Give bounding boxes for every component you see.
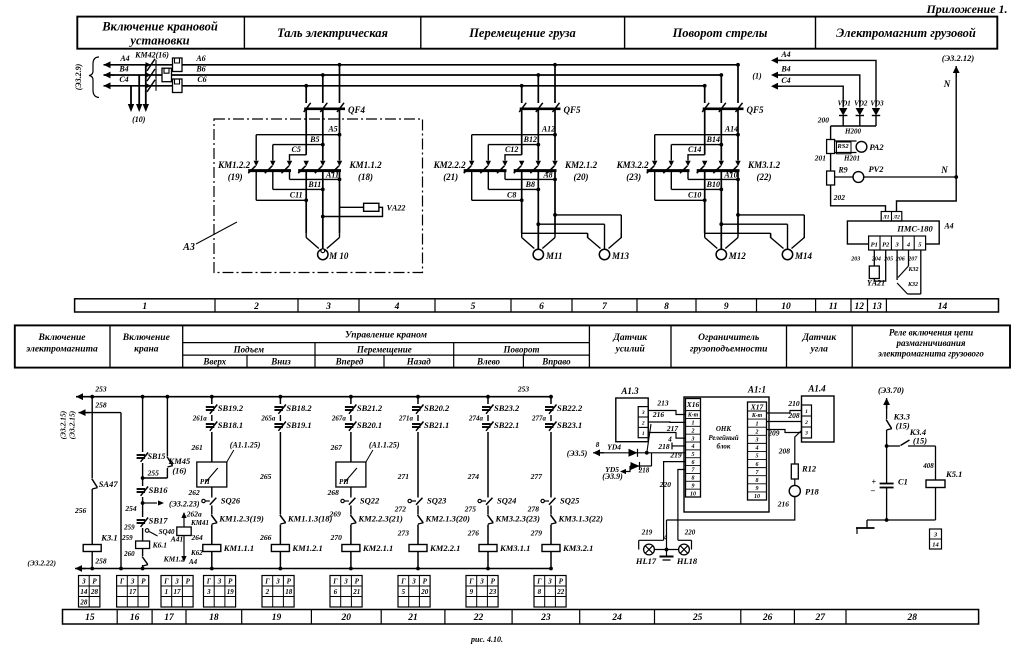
switch К3.3 <box>886 398 911 431</box>
svg-text:9: 9 <box>470 588 474 596</box>
svg-text:К-т: К-т <box>687 413 699 419</box>
svg-text:SВ15: SВ15 <box>148 452 166 461</box>
svg-text:Р: Р <box>186 577 191 585</box>
svg-text:8: 8 <box>596 441 600 449</box>
svg-text:А14: А14 <box>724 125 738 134</box>
svg-text:электромагнита грузового: электромагнита грузового <box>877 349 984 359</box>
wire 208 <box>767 411 802 422</box>
svg-text:253: 253 <box>517 385 530 394</box>
svg-text:9: 9 <box>724 302 729 312</box>
wire feeder A to М13 <box>553 213 621 238</box>
contact table 15 <box>79 576 100 608</box>
relay coil КМ3.2.1 <box>542 543 593 553</box>
label Вниз <box>270 357 291 367</box>
motor M10 shaft <box>321 249 325 253</box>
zone strip 15-28 <box>63 610 979 625</box>
svg-text:Вправо: Вправо <box>541 357 571 367</box>
svg-text:19: 19 <box>272 613 282 623</box>
svg-text:А10: А10 <box>723 171 737 180</box>
circuit breaker QF5 Поворот <box>702 103 764 115</box>
arrow B4 right <box>771 65 791 79</box>
svg-text:SВ20.2: SВ20.2 <box>424 403 450 413</box>
svg-text:НL18: НL18 <box>676 556 698 566</box>
svg-text:14: 14 <box>938 302 948 312</box>
label Подъем <box>233 345 264 355</box>
terminal Л1 Л2 <box>881 212 902 222</box>
wire rail A6 <box>104 64 739 66</box>
svg-text:2: 2 <box>265 588 270 596</box>
svg-text:КМ3.2.1: КМ3.2.1 <box>562 543 593 553</box>
svg-text:Р2: Р2 <box>882 242 890 249</box>
wire out C Поворот <box>655 172 707 202</box>
label С11 <box>290 191 303 200</box>
wire column col23 bottom <box>549 552 553 571</box>
node (Э3.2.9) <box>74 63 83 90</box>
wire out A Перемещение <box>505 172 557 181</box>
svg-text:SА47: SА47 <box>99 479 119 489</box>
svg-text:SQ24: SQ24 <box>497 496 516 506</box>
svg-text:Вверх: Вверх <box>202 357 226 367</box>
svg-text:12: 12 <box>855 302 865 312</box>
svg-text:А1.4: А1.4 <box>807 384 826 394</box>
svg-text:В11: В11 <box>307 180 321 189</box>
svg-text:КМ2.1.2: КМ2.1.2 <box>564 160 598 170</box>
svg-text:Реле включения цепи: Реле включения цепи <box>889 328 973 338</box>
svg-text:Г: Г <box>163 577 169 585</box>
contact table 17 <box>161 576 193 608</box>
svg-text:6: 6 <box>692 460 695 466</box>
svg-text:3: 3 <box>691 436 695 442</box>
svg-text:(Э3.2.23): (Э3.2.23) <box>169 500 200 509</box>
svg-text:К5.1: К5.1 <box>945 469 962 479</box>
svg-text:В14: В14 <box>706 135 720 144</box>
wire С14 vertical <box>704 110 706 155</box>
svg-text:Г: Г <box>206 577 212 585</box>
diode YD5 <box>605 453 651 474</box>
wire relay bottom <box>867 519 936 521</box>
svg-text:З: З <box>217 577 222 585</box>
wire 209 <box>767 429 802 438</box>
svg-text:М11: М11 <box>545 251 563 261</box>
wire КМ45 column <box>141 395 170 456</box>
diode YD4 <box>607 443 637 457</box>
wire 219 <box>664 451 686 541</box>
label Поворот row <box>503 345 540 355</box>
svg-text:14: 14 <box>80 588 88 596</box>
wire 255 <box>141 463 159 486</box>
meter P18 <box>789 479 819 497</box>
contact КМ2.2.3(21) <box>329 510 403 525</box>
label В14 <box>706 135 720 144</box>
svg-text:28: 28 <box>907 613 918 623</box>
svg-text:SВ19.1: SВ19.1 <box>286 420 311 430</box>
svg-text:(20): (20) <box>574 172 589 182</box>
label 253 right <box>517 385 530 394</box>
svg-text:9: 9 <box>692 483 695 489</box>
wire 202 <box>831 185 886 212</box>
svg-text:213: 213 <box>656 399 669 408</box>
svg-text:С10: С10 <box>688 191 701 200</box>
svg-text:17: 17 <box>129 588 137 596</box>
wire 277 long col23 <box>530 432 551 498</box>
wire А5 vertical <box>339 110 341 161</box>
svg-text:3: 3 <box>804 431 808 437</box>
svg-text:11: 11 <box>829 302 838 312</box>
contact table 16 <box>117 576 149 608</box>
relay РП col18 <box>197 441 261 488</box>
svg-text:10: 10 <box>781 302 791 312</box>
svg-text:В4: В4 <box>780 65 790 74</box>
svg-text:Р: Р <box>287 577 292 585</box>
svg-text:Р1: Р1 <box>871 242 878 249</box>
svg-text:R12: R12 <box>801 464 817 474</box>
svg-text:Г: Г <box>468 577 474 585</box>
label Вперед <box>335 357 364 367</box>
label КМ1.2.2 <box>217 160 251 182</box>
svg-text:23: 23 <box>540 613 551 623</box>
title Приложение 1. <box>925 2 1007 16</box>
svg-text:К32: К32 <box>907 282 918 288</box>
svg-text:КМ3.2.3(23): КМ3.2.3(23) <box>495 514 541 524</box>
svg-text:3: 3 <box>325 302 331 312</box>
wire feeder A to М14 <box>736 213 804 238</box>
wire bus 258 bottom <box>75 568 551 570</box>
label Поворот стрелы <box>672 26 768 40</box>
svg-text:С4: С4 <box>119 75 128 84</box>
svg-text:N: N <box>940 165 948 175</box>
svg-text:269: 269 <box>329 510 342 519</box>
svg-text:QF5: QF5 <box>746 105 764 115</box>
svg-text:YD4: YD4 <box>607 443 621 452</box>
svg-text:2: 2 <box>641 421 645 427</box>
wire taps Таль <box>304 63 341 103</box>
wire feed C Таль <box>290 155 307 161</box>
svg-text:Г: Г <box>400 577 406 585</box>
svg-text:(16): (16) <box>172 466 186 476</box>
svg-text:210: 210 <box>787 399 800 408</box>
wire to aux col20 <box>350 506 352 515</box>
svg-text:4: 4 <box>755 446 759 452</box>
wire column col18 bottom <box>210 552 214 571</box>
caption рис. 4.10. <box>470 635 503 644</box>
svg-text:Ограничитель: Ограничитель <box>698 333 760 343</box>
contact КМ45 <box>143 456 191 478</box>
arrow drop A4 <box>143 104 149 112</box>
svg-text:273: 273 <box>397 529 410 538</box>
svg-text:З: З <box>130 577 135 585</box>
svg-text:SВ18.1: SВ18.1 <box>218 420 243 430</box>
fuse FU C6 <box>173 79 183 93</box>
label Включение электромагнита <box>25 333 98 355</box>
svg-text:1: 1 <box>165 588 169 596</box>
wire motor lines Поворот <box>705 172 738 249</box>
wire to aux col22 <box>487 506 489 515</box>
svg-text:РА2: РА2 <box>869 142 884 152</box>
label В8 <box>525 180 535 189</box>
relay coil КМ2.1.1 <box>342 543 393 553</box>
wire В5 vertical <box>321 110 325 161</box>
label А5 <box>327 125 337 134</box>
node (10) <box>132 115 146 124</box>
diode VD2 <box>854 100 868 127</box>
svg-text:10: 10 <box>690 491 696 497</box>
switch SA47 <box>92 479 119 490</box>
label С5 <box>292 145 301 154</box>
svg-text:С12: С12 <box>505 145 518 154</box>
svg-text:КМ1.2.2: КМ1.2.2 <box>217 160 251 170</box>
label 201 <box>814 154 826 163</box>
label B6 <box>195 65 205 74</box>
arrow 258 <box>79 401 107 417</box>
svg-text:КМ3.2.2: КМ3.2.2 <box>616 160 650 170</box>
svg-text:КМ3.1.2: КМ3.1.2 <box>747 160 781 170</box>
svg-text:Поворот: Поворот <box>503 345 540 355</box>
wire feeder C to М14 <box>705 233 771 238</box>
button SB17 <box>137 516 169 527</box>
svg-text:SQ26: SQ26 <box>221 496 241 506</box>
svg-text:КМ1.2: КМ1.2 <box>163 555 185 564</box>
resistor R9 <box>827 166 848 186</box>
svg-text:С5: С5 <box>292 145 301 154</box>
fuse FU A6 <box>173 58 183 72</box>
wire feeder B to М14 <box>719 222 787 249</box>
contact КМ1.2.3(19) <box>186 510 264 525</box>
wire 259 <box>121 524 143 543</box>
label N upper <box>943 79 951 89</box>
switch SQ25 <box>527 496 580 514</box>
button SВ21.1 <box>412 420 449 431</box>
contact КМ42 pole <box>146 59 156 71</box>
svg-text:262а: 262а <box>186 510 202 519</box>
wire 274 long col22 <box>467 432 488 498</box>
svg-text:(1): (1) <box>752 72 762 81</box>
svg-text:260: 260 <box>123 550 135 558</box>
svg-text:РП: РП <box>339 478 349 486</box>
svg-text:1: 1 <box>805 409 808 415</box>
svg-text:8: 8 <box>756 478 759 484</box>
button SВ18.2 <box>274 403 312 414</box>
svg-text:Р18: Р18 <box>805 487 819 497</box>
capacitor C1 <box>870 477 908 522</box>
svg-text:274: 274 <box>467 472 480 481</box>
svg-text:(15): (15) <box>913 436 927 446</box>
contact table 19 <box>262 576 294 608</box>
svg-text:М14: М14 <box>794 251 813 261</box>
node 271а <box>398 415 418 423</box>
svg-text:(23): (23) <box>626 172 641 182</box>
wire motor lines Перемещение <box>522 172 555 249</box>
svg-text:SВ23.1: SВ23.1 <box>557 420 582 430</box>
svg-text:(Э3.2.15): (Э3.2.15) <box>59 410 68 439</box>
svg-text:QF5: QF5 <box>563 105 581 115</box>
svg-text:КМ1.2.1: КМ1.2.1 <box>291 543 322 553</box>
svg-text:208: 208 <box>787 411 800 420</box>
svg-text:VD3: VD3 <box>870 100 884 108</box>
label Датчик угла <box>801 333 837 355</box>
switch SQ40 <box>145 528 175 536</box>
label 203 <box>850 257 860 263</box>
contact КМ42 pole <box>146 80 156 92</box>
arrow A4 <box>104 54 130 68</box>
svg-text:А4: А4 <box>943 222 953 231</box>
wire 220 <box>659 470 686 541</box>
svg-text:13: 13 <box>872 302 882 312</box>
wire В12 vertical <box>536 110 540 161</box>
svg-text:А6: А6 <box>195 54 205 63</box>
svg-text:3: 3 <box>894 242 899 249</box>
svg-text:КМ2.2.3(21): КМ2.2.3(21) <box>357 514 403 524</box>
svg-text:265: 265 <box>259 472 272 481</box>
wire column col22 top <box>486 395 490 404</box>
label С12 <box>505 145 518 154</box>
wire В14 vertical <box>719 110 723 161</box>
contact КМ1.1.3(18) <box>280 514 333 525</box>
svg-text:усилий: усилий <box>615 344 645 355</box>
wire node 200 bus <box>831 126 876 140</box>
svg-text:259: 259 <box>121 534 133 542</box>
svg-text:А4: А4 <box>780 50 790 59</box>
label А8 <box>542 171 552 180</box>
relay coil КМ1.2.1 <box>271 543 322 553</box>
svg-text:28: 28 <box>79 598 88 606</box>
svg-text:Г: Г <box>264 577 270 585</box>
svg-text:QF4: QF4 <box>348 105 366 115</box>
svg-text:С4: С4 <box>781 76 790 85</box>
wire stub 4 <box>667 436 685 450</box>
wire motor lines Таль <box>306 172 339 249</box>
svg-text:265а: 265а <box>260 415 276 423</box>
svg-text:блок: блок <box>717 443 731 451</box>
switch SQ22 <box>327 488 380 506</box>
svg-text:255: 255 <box>147 469 160 478</box>
label А12 <box>541 125 555 134</box>
svg-text:SQ23: SQ23 <box>427 496 447 506</box>
svg-text:Вперед: Вперед <box>335 357 364 367</box>
contactor КМ1.2.2 (19) poles <box>248 161 292 174</box>
button SВ19.2 <box>206 403 244 414</box>
svg-text:3: 3 <box>206 588 211 596</box>
svg-text:278: 278 <box>527 505 540 514</box>
wire 266 col19 <box>259 525 280 545</box>
wire out A Таль <box>290 172 342 181</box>
arrow 253 <box>76 385 107 401</box>
node 267а <box>331 415 351 423</box>
svg-text:274а: 274а <box>468 415 484 423</box>
svg-text:5: 5 <box>756 454 759 460</box>
svg-text:28: 28 <box>90 588 99 596</box>
label КМ3.1.2 <box>747 160 781 182</box>
wire P1 down <box>873 250 875 266</box>
label КМ42(16) <box>134 51 169 60</box>
wire below РП col20 <box>350 487 352 498</box>
svg-text:установки: установки <box>128 34 189 48</box>
label Электромагнит грузовой <box>836 26 976 40</box>
svg-text:218: 218 <box>657 442 670 451</box>
wire rail C6 <box>104 85 705 87</box>
svg-text:С8: С8 <box>507 191 516 200</box>
motor М11 <box>522 233 563 261</box>
contactor КМ1.1.2 (18) poles <box>298 161 342 174</box>
svg-text:Г: Г <box>332 577 338 585</box>
wire YD junction <box>645 424 651 455</box>
svg-text:9: 9 <box>756 486 759 492</box>
svg-text:1: 1 <box>692 421 695 427</box>
svg-text:216: 216 <box>652 410 665 419</box>
svg-text:RS2: RS2 <box>836 143 849 150</box>
svg-text:З: З <box>174 577 179 585</box>
wire А12 vertical <box>554 110 556 161</box>
wire 213 <box>648 399 685 415</box>
contactor КМ3.1.2 (22) poles <box>697 161 741 174</box>
wire 264 col18 <box>191 525 212 545</box>
wire column col20 bottom <box>349 552 353 571</box>
label 200 <box>817 116 830 125</box>
wire 210 <box>767 399 802 413</box>
arrow (Э3.2.22) <box>27 557 107 572</box>
relay coil К6.1 <box>136 541 167 550</box>
svg-text:Р: Р <box>92 577 97 585</box>
ammeter PA2 <box>835 141 885 153</box>
label Включение крановой установки <box>101 20 218 48</box>
svg-text:261: 261 <box>191 443 203 452</box>
svg-text:(Э3.5): (Э3.5) <box>567 449 588 458</box>
svg-text:268: 268 <box>327 488 340 497</box>
svg-text:Включение: Включение <box>37 333 86 343</box>
label С14 <box>688 145 701 154</box>
svg-text:Г: Г <box>536 577 542 585</box>
svg-text:8: 8 <box>692 476 695 482</box>
svg-text:200: 200 <box>817 116 830 125</box>
label Н200 <box>844 128 861 136</box>
svg-text:17: 17 <box>164 613 175 623</box>
shunt RS2 <box>827 140 851 154</box>
svg-text:З: З <box>933 532 938 539</box>
button SB16 <box>137 485 169 496</box>
svg-text:253: 253 <box>94 385 107 394</box>
wire feed C Перемещение <box>505 155 522 161</box>
svg-text:Р: Р <box>491 577 496 585</box>
wire 258 upper <box>79 413 123 571</box>
contact КМ3.1.3(22) <box>551 514 604 525</box>
svg-text:277а: 277а <box>531 415 547 423</box>
svg-text:(18): (18) <box>358 172 373 182</box>
svg-text:НL17: НL17 <box>635 556 657 566</box>
svg-text:(Э3.2.9): (Э3.2.9) <box>74 63 83 90</box>
wire N vertical <box>897 66 957 212</box>
label Перемещение груза <box>468 26 576 40</box>
svg-text:РV2: РV2 <box>868 164 884 174</box>
wire feed B Поворот <box>671 145 721 161</box>
svg-text:27: 27 <box>814 613 826 623</box>
svg-text:З: З <box>343 577 348 585</box>
wire column col19 top <box>279 395 283 404</box>
label Вправо <box>541 357 571 367</box>
label Влево <box>476 357 501 367</box>
svg-text:Перемещение: Перемещение <box>356 345 412 355</box>
svg-text:270: 270 <box>330 533 343 542</box>
node 261а <box>192 415 212 423</box>
label В5 <box>309 135 319 144</box>
arrow B4 <box>104 65 129 79</box>
svg-text:1: 1 <box>142 302 147 312</box>
motor М14 <box>771 233 813 261</box>
svg-text:SВ18.2: SВ18.2 <box>286 403 312 413</box>
svg-text:258: 258 <box>94 557 107 566</box>
svg-text:VD1: VD1 <box>838 100 851 108</box>
svg-text:(Э3.2.22): (Э3.2.22) <box>27 559 56 568</box>
svg-text:201: 201 <box>814 154 826 163</box>
switch К3.4 <box>887 427 936 446</box>
